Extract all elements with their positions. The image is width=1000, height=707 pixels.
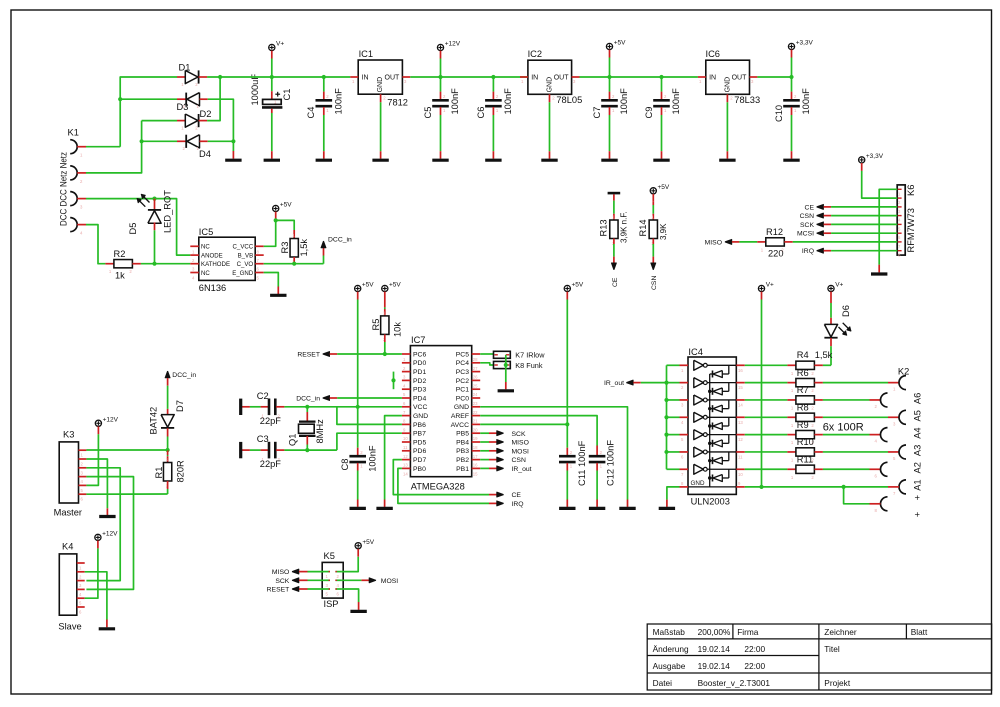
crystal Q1 8MHz [306, 407, 308, 412]
COM row wire to + pins [745, 486, 888, 488]
resistor R5 10k [384, 300, 386, 308]
svg-text:C7: C7 [592, 107, 602, 119]
svg-text:R5: R5 [371, 319, 381, 331]
wire D4 to minus vertical [208, 140, 234, 142]
svg-text:19: 19 [473, 436, 478, 441]
power symbol +5V (rail) [606, 43, 612, 49]
resistor R1 820R [167, 450, 169, 455]
V+ vertical to COM row [761, 300, 763, 487]
svg-text:CE: CE [805, 204, 815, 211]
wire +5V down [275, 219, 277, 222]
IC7 GND-right routing to ground [480, 407, 627, 500]
ground below C11 [559, 507, 575, 510]
svg-text:C8: C8 [340, 459, 350, 471]
power symbol +5V at IC5 [273, 205, 279, 211]
svg-text:CSN: CSN [512, 457, 526, 464]
wire K5-6 to ground [341, 589, 358, 602]
svg-text:12: 12 [403, 454, 408, 459]
svg-text:Slave: Slave [58, 622, 81, 632]
svg-text:SCK: SCK [512, 431, 526, 438]
svg-text:AVCC: AVCC [451, 422, 469, 429]
IC5 E_GND to ground [264, 273, 279, 287]
svg-text:PD5: PD5 [413, 439, 426, 446]
node +5V/R3 [274, 218, 278, 222]
connector K5 ISP [322, 562, 343, 598]
svg-text:200,00%: 200,00% [698, 627, 731, 637]
wire R2 to KATHODE [141, 263, 190, 265]
open bar above R13 [608, 192, 621, 195]
resistor R6 100R [745, 382, 788, 384]
K2 pin A2 [899, 445, 906, 459]
wire D3 to minus vertical [208, 99, 234, 151]
svg-text:V+: V+ [276, 41, 284, 48]
power symbol +12V (K3) [95, 420, 101, 426]
svg-text:C11 100nF: C11 100nF [577, 440, 587, 486]
wire PD7 to CE arrow [393, 460, 489, 495]
wire K3-3 down to K4-3 [86, 468, 120, 581]
resistor R9 100R [745, 434, 788, 436]
svg-text:14: 14 [403, 471, 408, 476]
svg-text:24: 24 [473, 392, 478, 397]
svg-text:10: 10 [738, 472, 743, 477]
wire +5V to K5-2 [341, 557, 358, 572]
K2 pin A3 [881, 428, 888, 442]
wire PB0 to IRQ arrow [398, 468, 489, 503]
svg-text:A2: A2 [913, 462, 923, 473]
svg-text:16: 16 [473, 463, 478, 468]
svg-text:OUT: OUT [732, 75, 748, 82]
capacitor C11 100nF [566, 424, 568, 447]
svg-text:3,9K: 3,9K [659, 223, 668, 240]
ground below C10 [783, 159, 799, 162]
wire +3,3V to K6-2 [862, 171, 898, 198]
wire K6-1 to ground [879, 189, 897, 264]
wire +5V down to AVCC [566, 300, 568, 425]
svg-text:19.02.14: 19.02.14 [698, 661, 731, 671]
node rail/C1 [270, 75, 274, 79]
node D5/KATHODE [152, 262, 156, 266]
svg-text:PD0: PD0 [413, 360, 426, 367]
net arrow DCC_in (from opto) [323, 256, 325, 264]
net arrow CE to K6-3 [817, 204, 824, 209]
svg-text:RESET: RESET [297, 352, 320, 359]
svg-text:22:00: 22:00 [744, 644, 765, 654]
svg-text:DCC_in: DCC_in [328, 237, 352, 244]
svg-text:Q1: Q1 [288, 434, 298, 446]
resistor R4 1,5k [745, 364, 788, 366]
net arrow MOSI from PB3 [480, 450, 489, 452]
svg-text:IC4: IC4 [688, 347, 702, 357]
svg-text:Firma: Firma [737, 627, 759, 637]
svg-text:IN: IN [709, 75, 716, 82]
svg-text:PC2: PC2 [456, 378, 469, 385]
svg-text:A4: A4 [913, 427, 923, 438]
svg-text:MOSI: MOSI [381, 578, 398, 585]
power symbol V+ (ULN COM) [758, 285, 764, 291]
diode D7 BAT42 [167, 378, 169, 386]
svg-text:V+: V+ [766, 282, 774, 289]
svg-text:RFM7W73: RFM7W73 [906, 208, 916, 252]
svg-text:R4: R4 [797, 350, 809, 360]
svg-text:Projekt: Projekt [824, 678, 851, 688]
svg-text:78L05: 78L05 [556, 95, 582, 105]
svg-text:IR_out: IR_out [604, 380, 624, 387]
svg-text:R12: R12 [766, 227, 783, 237]
svg-text:+3,3V: +3,3V [866, 153, 884, 160]
svg-text:6N136: 6N136 [199, 283, 226, 293]
svg-text:DCC_in: DCC_in [296, 396, 320, 403]
power symbol +3,3V at K6 [859, 157, 865, 163]
svg-text:1k: 1k [115, 271, 125, 281]
svg-text:+3,3V: +3,3V [796, 40, 814, 47]
svg-text:PD7: PD7 [413, 457, 426, 464]
capacitor C5 100nF [440, 77, 442, 92]
svg-text:GND: GND [454, 404, 469, 411]
svg-text:R11: R11 [797, 454, 813, 464]
svg-text:K2: K2 [898, 367, 909, 377]
svg-text:27: 27 [473, 366, 478, 371]
svg-text:D7: D7 [175, 400, 185, 412]
svg-text:E_GND: E_GND [232, 270, 254, 277]
svg-text:GND: GND [377, 77, 384, 93]
svg-text:PC0: PC0 [456, 395, 469, 402]
svg-text:PC3: PC3 [456, 369, 469, 376]
svg-text:Änderung: Änderung [653, 644, 689, 654]
svg-text:14: 14 [738, 402, 743, 407]
svg-text:D5: D5 [128, 223, 138, 235]
capacitor C8 100nF [357, 407, 359, 448]
wire K1-1 up to D1/D3 [120, 77, 177, 147]
capacitor C12 100nF [596, 446, 598, 456]
svg-text:+12V: +12V [445, 41, 461, 48]
svg-text:PD1: PD1 [413, 369, 426, 376]
svg-text:Datei: Datei [653, 678, 673, 688]
svg-text:CSN: CSN [651, 276, 658, 290]
svg-text:12: 12 [738, 437, 743, 442]
svg-text:K8 Funk: K8 Funk [515, 361, 543, 370]
ground below C7 [601, 159, 617, 162]
svg-text:B_VB: B_VB [238, 252, 254, 259]
svg-text:22pF: 22pF [260, 459, 282, 469]
power symbol +5V (K5) [355, 543, 361, 549]
diode D1 [177, 76, 185, 78]
K2 pin A6 [899, 376, 906, 390]
capacitor C1 1000uF polarized [271, 77, 273, 91]
wire +12V to K4-5 [85, 548, 98, 598]
svg-text:C3: C3 [257, 434, 269, 444]
wire K7/K8 to ground [505, 355, 507, 382]
wire K1-3 to D5/anode [86, 199, 190, 256]
capacitor C4 100nF [322, 75, 326, 79]
svg-text:1,5k: 1,5k [299, 239, 309, 257]
svg-text:PB6: PB6 [413, 422, 426, 429]
svg-text:PD3: PD3 [413, 387, 426, 394]
net arrow MISO from PB4 [480, 441, 489, 443]
svg-text:C2: C2 [257, 391, 269, 401]
svg-text:PC6: PC6 [413, 351, 426, 358]
diode common chain [709, 374, 711, 487]
net arrow DCC_in to PD4 [323, 396, 330, 401]
svg-text:PB7: PB7 [413, 431, 426, 438]
resistor R7 100R [745, 399, 788, 401]
ground below C9 [653, 159, 669, 162]
svg-text:MISO: MISO [705, 239, 722, 246]
gnd bar left of C2 [242, 406, 250, 408]
svg-text:+5V: +5V [389, 282, 401, 289]
svg-text:PC5: PC5 [456, 351, 469, 358]
svg-text:V+: V+ [835, 282, 843, 289]
wire K1-1 [86, 146, 120, 148]
connector K4 Slave [59, 554, 77, 615]
svg-text:PB1: PB1 [456, 466, 469, 473]
power symbol +5V (R5) [382, 285, 388, 291]
net arrow SCK to K5-3 [292, 578, 299, 583]
svg-text:7812: 7812 [387, 97, 408, 107]
svg-text:PB5: PB5 [456, 431, 469, 438]
svg-text:100nF: 100nF [801, 88, 811, 115]
jumper K8 Funk [480, 363, 493, 365]
svg-text:+12V: +12V [103, 417, 119, 424]
svg-text:22: 22 [473, 410, 478, 415]
net arrow IR_out from PB1 [480, 467, 489, 469]
svg-text:PD6: PD6 [413, 448, 426, 455]
ground of bridge [232, 151, 234, 159]
svg-text:11: 11 [738, 454, 743, 459]
svg-text:IN: IN [531, 75, 538, 82]
wire +12V to K3-5 [86, 434, 98, 485]
net arrow IR_out to IC4 inputs [626, 380, 633, 385]
branch to second + pin [844, 487, 870, 504]
resistor R13 3,9K n.F. [610, 220, 618, 239]
capacitor C9 100nF [659, 75, 663, 79]
svg-text:10: 10 [403, 436, 408, 441]
capacitor C6 100nF [491, 75, 495, 79]
svg-text:GND: GND [546, 77, 553, 93]
svg-text:R1: R1 [154, 467, 164, 479]
ground below C4 [316, 159, 332, 162]
svg-text:A5: A5 [913, 410, 923, 421]
optocoupler IC5 6N136 [199, 237, 255, 280]
svg-text:28: 28 [473, 357, 478, 362]
svg-text:BAT42: BAT42 [148, 407, 158, 435]
driver IC4 ULN2003 [688, 357, 736, 494]
svg-text:1000uF: 1000uF [250, 74, 260, 106]
svg-text:100nF: 100nF [619, 88, 629, 115]
svg-text:C9: C9 [644, 107, 654, 119]
svg-text:IC6: IC6 [706, 49, 720, 59]
wire K3-2 to ground [86, 459, 107, 508]
svg-text:KATHODE: KATHODE [201, 261, 230, 268]
svg-text:C_VO: C_VO [237, 261, 254, 268]
svg-text:K4: K4 [62, 542, 73, 552]
svg-text:Zeichner: Zeichner [824, 627, 857, 637]
svg-text:100nF: 100nF [450, 88, 460, 115]
svg-text:D1: D1 [179, 63, 191, 73]
svg-text:ATMEGA328: ATMEGA328 [411, 482, 465, 492]
svg-text:18: 18 [473, 445, 478, 450]
IC7 AREF to C12 [480, 416, 597, 446]
wire K3-6 to R1 [86, 493, 167, 495]
wire C_VO to DCC_in [264, 263, 295, 265]
K2 pin + [881, 497, 888, 511]
svg-text:NC: NC [201, 270, 210, 277]
wire K3-4 down to K4-4 [86, 477, 133, 590]
svg-text:PC1: PC1 [456, 387, 469, 394]
jumper K7 IRlow [480, 353, 493, 355]
svg-text:19.02.14: 19.02.14 [698, 644, 731, 654]
node D5 top [152, 197, 156, 201]
svg-text:20: 20 [473, 427, 478, 432]
voltage regulator IC6 78L33 [706, 60, 750, 94]
svg-text:ISP: ISP [324, 599, 339, 609]
svg-text:MISO: MISO [272, 569, 289, 576]
net arrow CE (down) [611, 263, 616, 270]
power symbol V+ (input) [269, 44, 275, 50]
svg-text:3,9K n.F.: 3,9K n.F. [620, 211, 629, 243]
net arrow DCC_in (to booster) [165, 371, 170, 378]
svg-text:Maßstab: Maßstab [653, 627, 686, 637]
svg-text:13: 13 [738, 420, 743, 425]
svg-text:R6: R6 [797, 368, 809, 378]
svg-text:IC5: IC5 [199, 227, 213, 237]
resistor R12 220 / MISO to K6-7 [725, 239, 732, 244]
node R3/C_VO [292, 262, 296, 266]
svg-text:+12V: +12V [102, 531, 118, 538]
svg-text:78L33: 78L33 [734, 95, 760, 105]
svg-text:1,5k: 1,5k [815, 350, 833, 360]
svg-text:100nF: 100nF [671, 88, 681, 115]
tie PD1-PD2-PD3 [393, 372, 395, 390]
wire +5V to rail [609, 58, 611, 78]
svg-text:CE: CE [512, 492, 522, 499]
LED D5 LED_ROT [154, 199, 156, 210]
svg-text:Blatt: Blatt [911, 627, 928, 637]
svg-text:A1: A1 [913, 479, 923, 490]
capacitor C7 100nF [609, 77, 611, 92]
svg-text:PD2: PD2 [413, 378, 426, 385]
IC7 GND-left to ground [385, 416, 402, 500]
svg-text:220: 220 [768, 249, 784, 259]
svg-text:K6: K6 [906, 185, 916, 196]
IC4 GND/COM row [688, 486, 736, 488]
net arrow MISO to K5-1 [292, 569, 299, 574]
svg-text:K3: K3 [63, 430, 74, 440]
svg-text:SCK: SCK [275, 578, 289, 585]
svg-text:D4: D4 [199, 149, 211, 159]
svg-text:R13: R13 [599, 219, 609, 236]
IC2 GND pin to ground [549, 94, 551, 102]
svg-text:IRQ: IRQ [512, 501, 524, 508]
jog to PB7 [337, 433, 402, 450]
svg-text:PB0: PB0 [413, 466, 426, 473]
wire rail D1 to IC1 [207, 76, 350, 78]
svg-text:15: 15 [738, 385, 743, 390]
svg-text:Master: Master [54, 508, 82, 518]
net arrow IRQ to K6-8 [817, 248, 824, 253]
svg-text:100nF: 100nF [333, 88, 343, 115]
svg-text:VCC: VCC [413, 404, 427, 411]
svg-text:C5: C5 [423, 107, 433, 119]
net arrow CSN from PB2 [480, 459, 489, 461]
power symbol V+ (LED D6) [828, 285, 834, 291]
ground below C6 [485, 159, 501, 162]
diode D4 [142, 140, 177, 142]
microcontroller IC7 ATMEGA328 [410, 346, 471, 477]
svg-text:K5: K5 [324, 551, 335, 561]
IC1 GND pin to ground [380, 94, 382, 102]
svg-text:C12 100nF: C12 100nF [606, 440, 616, 486]
svg-text:PB2: PB2 [456, 457, 469, 464]
svg-text:+5V: +5V [658, 184, 670, 191]
connector K6 RFM7W73 [897, 185, 905, 255]
svg-text:C6: C6 [476, 107, 486, 119]
svg-text:R7: R7 [797, 385, 809, 395]
resistor R10 100R [745, 451, 788, 453]
svg-text:100nF: 100nF [503, 88, 513, 115]
K2 pin A1 [881, 462, 888, 476]
wire IC1 OUT to IC2 IN [410, 76, 528, 78]
svg-text:MCSI: MCSI [797, 231, 814, 238]
diode D2 [142, 120, 177, 122]
wire IC6 OUT to +3.3V node [757, 76, 791, 78]
svg-text:D3: D3 [177, 102, 189, 112]
svg-text:+5V: +5V [280, 202, 292, 209]
diode D3 [120, 98, 177, 100]
node R5/RESET [383, 352, 387, 356]
svg-text:+5V: +5V [614, 40, 626, 47]
net arrow RESET to PC6 [323, 352, 330, 357]
wire C3 to Q1 bottom [284, 449, 337, 451]
svg-text:GND: GND [691, 480, 705, 487]
svg-text:MOSI: MOSI [512, 448, 529, 455]
svg-text:21: 21 [473, 419, 478, 424]
power symbol +12V [437, 44, 443, 50]
svg-text:+: + [913, 512, 923, 517]
resistor R3 1,5k [276, 220, 295, 230]
net arrow SCK from PB5 [480, 432, 489, 434]
svg-text:26: 26 [473, 375, 478, 380]
node D3 row [118, 97, 122, 101]
svg-text:ULN2003: ULN2003 [691, 497, 730, 507]
svg-text:C_VCC: C_VCC [233, 244, 254, 251]
svg-text:+5V: +5V [362, 539, 374, 546]
svg-text:MISO: MISO [512, 440, 529, 447]
node minus/D4 [231, 139, 235, 143]
svg-text:PD4: PD4 [413, 395, 426, 402]
svg-text:PB4: PB4 [456, 439, 469, 446]
IC6 GND pin to ground [726, 94, 728, 102]
wire K1-2 up to D2/D4 [86, 121, 142, 173]
power symbol +5V (VCC line) [355, 285, 361, 291]
input bus vertical [666, 365, 668, 469]
power symbol +5V at R14 [650, 188, 656, 194]
capacitor C2 22pF [250, 406, 261, 408]
svg-text:ANODE: ANODE [201, 252, 223, 259]
ground below C12 [589, 507, 605, 510]
svg-text:OUT: OUT [554, 75, 570, 82]
svg-text:Booster_v_2.T3001: Booster_v_2.T3001 [698, 678, 771, 688]
resistor R14 3,9K [652, 202, 654, 205]
svg-text:11: 11 [403, 445, 408, 450]
svg-text:C1: C1 [282, 89, 292, 101]
wire D2 out up to rail [207, 77, 220, 121]
title block [647, 624, 991, 690]
ground below C5 [432, 159, 448, 162]
resistor R8 100R [745, 416, 788, 418]
svg-text:C10: C10 [774, 105, 784, 122]
svg-text:16: 16 [738, 368, 743, 373]
svg-text:Ausgabe: Ausgabe [653, 661, 686, 671]
